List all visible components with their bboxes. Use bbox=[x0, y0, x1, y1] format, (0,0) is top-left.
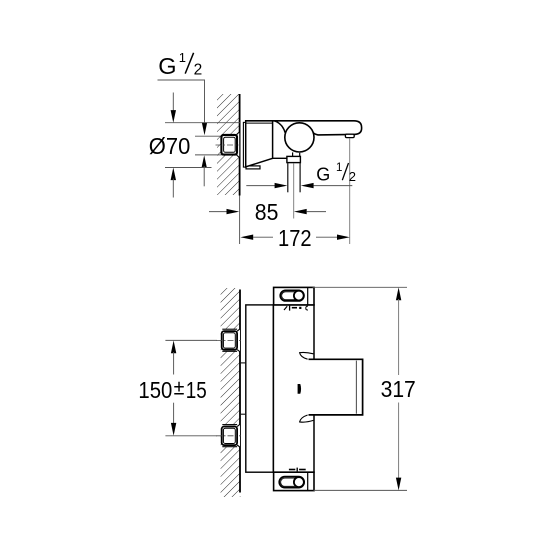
union square bottom bbox=[222, 427, 237, 446]
body underside line to outlet bbox=[273, 157, 288, 159]
wall face line (bottom) bbox=[239, 290, 241, 493]
spout block top curl bbox=[300, 352, 314, 359]
svg-text:2: 2 bbox=[194, 62, 203, 79]
wall face extension line down to 172 dimension bbox=[239, 196, 241, 245]
wall face line bbox=[239, 94, 241, 196]
body centre black mark bbox=[298, 384, 301, 394]
plate-wall tick 1 bbox=[240, 362, 246, 364]
svg-text:15: 15 bbox=[186, 377, 207, 403]
G 1/2 top arrow (down) bbox=[202, 122, 207, 135]
aerator nub under spout bbox=[345, 134, 354, 137]
outlet center extension line bbox=[293, 164, 295, 219]
dimension 317 extension lines bbox=[313, 286, 408, 288]
svg-text:150: 150 bbox=[138, 377, 172, 403]
svg-text:±: ± bbox=[174, 376, 185, 400]
union flange top bbox=[222, 329, 240, 352]
fitting bottom extension line bbox=[195, 154, 222, 156]
spout tip extension line bbox=[349, 138, 351, 244]
dimension 150±15 extension lines bbox=[165, 339, 217, 341]
svg-text:1: 1 bbox=[336, 162, 342, 174]
dimension 172 bbox=[240, 225, 349, 251]
G 1/2 bottom leader: left arrow bbox=[246, 185, 275, 187]
svg-text:2: 2 bbox=[349, 169, 356, 184]
back plate bbox=[246, 305, 274, 472]
top handle pill bbox=[280, 290, 304, 301]
Ø70 lower extension line bbox=[165, 167, 212, 169]
plate-wall tick 2 bbox=[240, 413, 246, 415]
fitting centerline (dash-dot) bbox=[216, 144, 241, 146]
fitting top extension line bbox=[195, 135, 222, 137]
svg-text:85: 85 bbox=[255, 199, 279, 225]
G 1/2 top leader lines bbox=[158, 80, 205, 124]
main body bbox=[273, 305, 314, 472]
left fillet into knob bbox=[274, 121, 285, 133]
thermostat knob (circle) bbox=[285, 123, 314, 152]
dimension 317 bbox=[381, 287, 416, 490]
svg-text:172: 172 bbox=[278, 225, 312, 251]
svg-text:G: G bbox=[316, 164, 330, 184]
Ø70 upper arrow (down) bbox=[172, 93, 174, 112]
G 1/2 top label bbox=[158, 50, 202, 79]
scale marks below top cap bbox=[284, 306, 308, 311]
dimension 85 bbox=[209, 199, 326, 225]
spout block inner face line bbox=[355, 361, 357, 414]
bottom handle pill bbox=[279, 477, 304, 488]
escutcheon disc bbox=[243, 122, 245, 167]
G 1/2 bottom leader: right arrow bbox=[301, 183, 314, 188]
mounting foot bbox=[246, 166, 260, 169]
svg-text:G: G bbox=[158, 53, 176, 79]
dimension 150±15 bbox=[138, 341, 206, 436]
wall hatching (top view wall section) bbox=[217, 94, 240, 195]
wall union fitting (square) bbox=[221, 135, 237, 155]
spout block outline bbox=[309, 359, 363, 415]
union square top bbox=[222, 331, 237, 350]
union bottom centerline bbox=[216, 435, 241, 437]
fitting up arrow bbox=[202, 155, 207, 168]
G 1/2 bottom label bbox=[316, 162, 356, 184]
spout outline bbox=[246, 121, 362, 135]
wedge inner top line bbox=[246, 122, 273, 124]
Ø70 upper extension line bbox=[165, 122, 240, 124]
svg-text:Ø70: Ø70 bbox=[149, 133, 191, 159]
svg-text:1: 1 bbox=[179, 50, 186, 65]
outlet nut bbox=[287, 156, 301, 162]
svg-text:317: 317 bbox=[381, 376, 416, 402]
wall union flange (between fitting and wall) bbox=[237, 132, 240, 158]
Ø70 lower arrow (up) bbox=[171, 168, 176, 181]
wall hatching (bottom) bbox=[221, 288, 241, 497]
body wedge bbox=[246, 121, 273, 167]
union top centerline bbox=[216, 339, 241, 341]
spout block bottom curl bbox=[300, 415, 314, 422]
bottom cap bbox=[274, 472, 314, 490]
outlet collar below knob bbox=[292, 152, 294, 156]
spout body fill bbox=[273, 121, 362, 135]
outlet pipe bbox=[287, 163, 289, 193]
scale marks above bottom cap bbox=[289, 468, 306, 472]
union flange bottom bbox=[222, 424, 240, 447]
top cap bbox=[274, 287, 314, 305]
spout block (step) white fill bbox=[313, 359, 362, 415]
